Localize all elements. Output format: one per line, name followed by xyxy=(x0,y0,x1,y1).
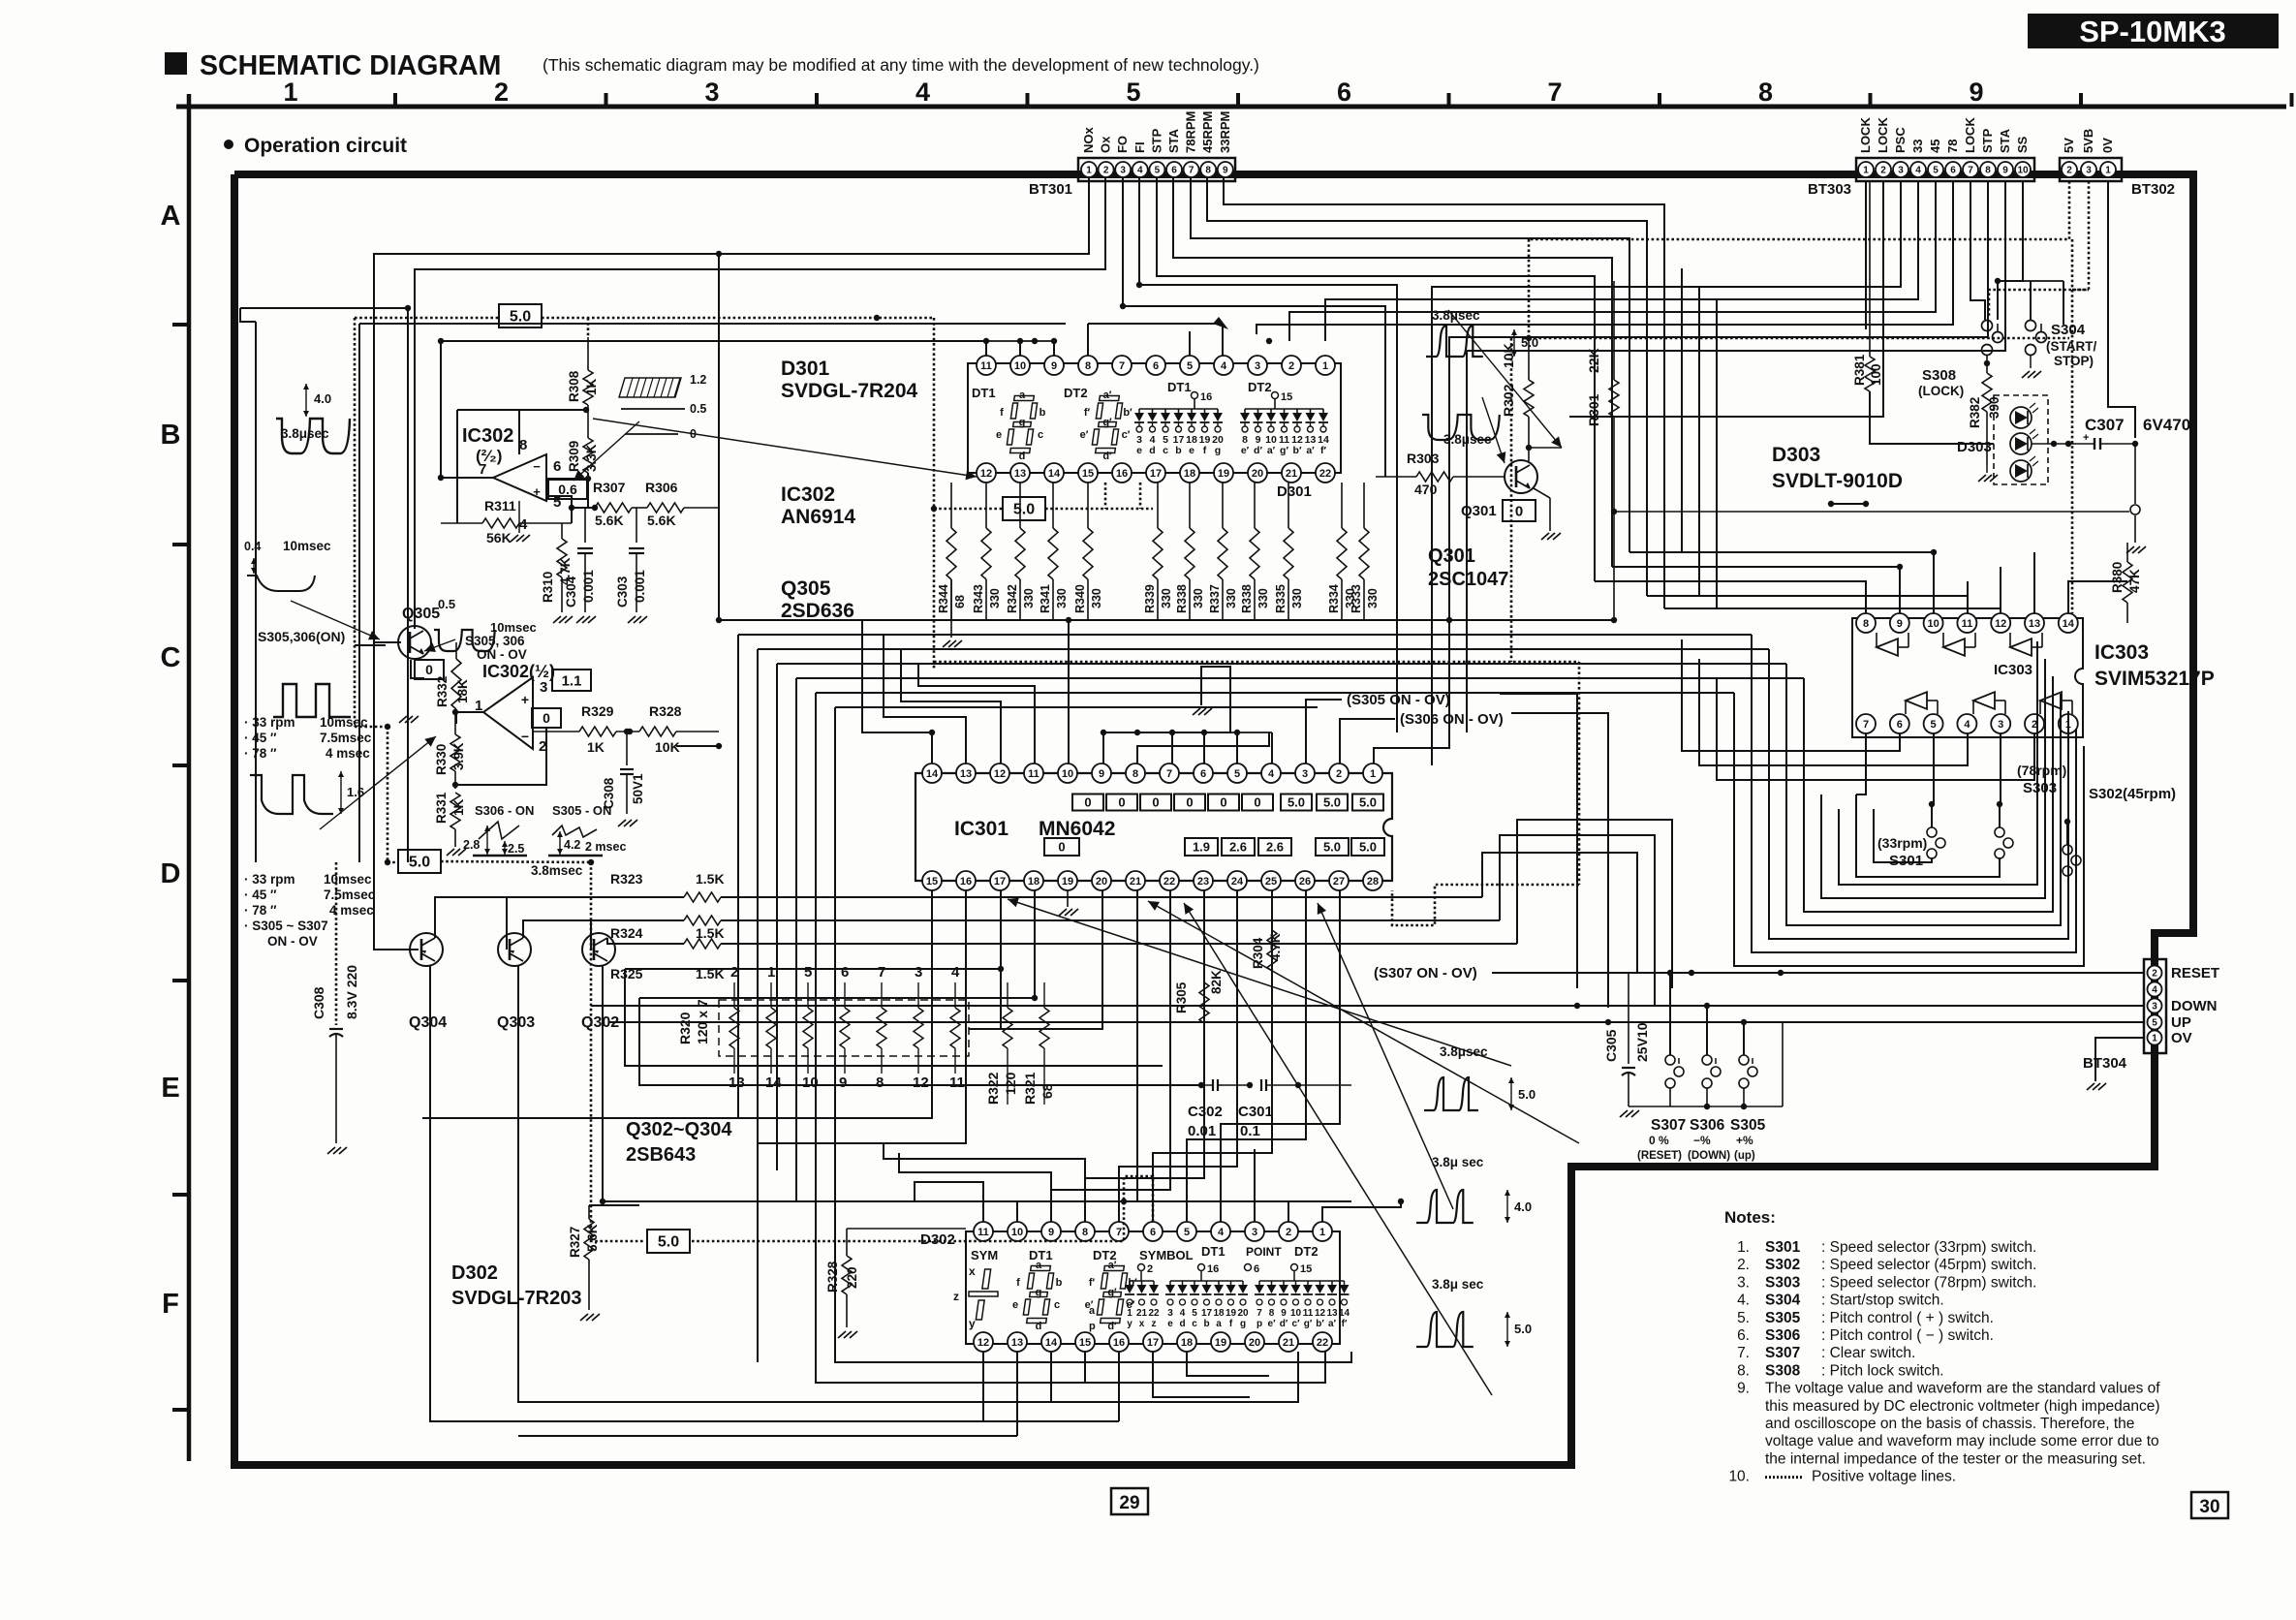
ground under S304 xyxy=(2030,356,2032,368)
svg-text:330: 330 xyxy=(1366,588,1380,608)
svg-text:4: 4 xyxy=(951,964,960,981)
svg-text:IC301: IC301 xyxy=(954,818,1008,840)
junction xyxy=(1611,617,1617,623)
svg-text:1.2: 1.2 xyxy=(690,373,706,387)
svg-text:13: 13 xyxy=(960,768,972,780)
svg-text:SCHEMATIC DIAGRAM: SCHEMATIC DIAGRAM xyxy=(200,50,501,81)
IC301 pin 21 xyxy=(1126,871,1145,890)
svg-text:7: 7 xyxy=(1166,768,1172,780)
wire BT301 pin2 to Q305 collector xyxy=(415,177,1105,629)
D301 pin 9 xyxy=(1044,356,1064,375)
svg-text:7: 7 xyxy=(1189,166,1195,176)
transistor Q303 xyxy=(498,933,531,966)
svg-text:g′: g′ xyxy=(1304,1319,1313,1329)
svg-text:f′: f′ xyxy=(1320,445,1326,456)
switch S305 xyxy=(1739,1055,1749,1065)
transistor Q304 xyxy=(410,933,443,966)
wire S306 switch drop xyxy=(1706,1006,1708,1055)
wire IC301 pin13 up-left staircase xyxy=(884,635,966,763)
svg-text:IC303: IC303 xyxy=(1994,662,2032,678)
D302 pin 20 xyxy=(1245,1332,1264,1352)
svg-text:(33rpm): (33rpm) xyxy=(1877,835,1927,851)
svg-text:SVIM53217P: SVIM53217P xyxy=(2094,668,2215,690)
svg-text:· 78 ″: · 78 ″ xyxy=(244,746,277,761)
ruler tick xyxy=(2079,93,2083,107)
svg-text:2SC1047: 2SC1047 xyxy=(1428,569,1508,590)
transistor Q302 xyxy=(582,933,615,966)
svg-text:45: 45 xyxy=(1928,140,1942,153)
svg-text:SVDGL-7R203: SVDGL-7R203 xyxy=(451,1288,582,1309)
svg-text:R338: R338 xyxy=(1240,584,1254,613)
svg-text:Q301: Q301 xyxy=(1428,545,1475,567)
ground under R327 xyxy=(580,1314,588,1321)
resistor R330 3.9K xyxy=(454,712,456,734)
svg-text:4: 4 xyxy=(1180,1308,1186,1319)
svg-text:DT1: DT1 xyxy=(1201,1244,1226,1259)
wire S304 right to 5V node xyxy=(2063,281,2064,325)
resistor R333 330 xyxy=(1363,483,1365,528)
resistor R332 18K xyxy=(455,642,457,659)
svg-text:0.001: 0.001 xyxy=(581,570,596,603)
wire R380 to IC303 pin14 xyxy=(2068,581,2127,613)
boxed voltage 0 at opamp xyxy=(532,708,561,728)
svg-text:SS: SS xyxy=(2015,136,2030,153)
D301 pin 10 xyxy=(1010,356,1030,375)
svg-text:g: g xyxy=(1036,1287,1042,1298)
wire S307 line to BT304 RESET xyxy=(1492,972,2144,974)
BT303 pin 6 xyxy=(1945,162,1961,177)
D301 pin 12 xyxy=(977,463,996,483)
svg-text:5.: 5. xyxy=(1737,1310,1750,1326)
wire IC301 pin16 down xyxy=(758,890,966,1143)
svg-text:12: 12 xyxy=(980,468,992,480)
svg-text:· 33 rpm: · 33 rpm xyxy=(244,715,295,730)
svg-text:6: 6 xyxy=(1150,1227,1156,1238)
svg-text:11: 11 xyxy=(949,1075,965,1091)
D301 pin 2 xyxy=(1282,356,1301,375)
resistor R337 330 xyxy=(1222,483,1224,528)
svg-text:: Pitch control ( + ) switch.: : Pitch control ( + ) switch. xyxy=(1821,1310,1994,1326)
svg-text:E: E xyxy=(161,1073,179,1104)
switch S308 pushbutton xyxy=(1982,321,1993,331)
svg-text:0.4: 0.4 xyxy=(244,540,261,553)
svg-text:SVDLT-9010D: SVDLT-9010D xyxy=(1772,470,1903,492)
svg-text:b: b xyxy=(1203,1319,1209,1329)
svg-text:2: 2 xyxy=(1880,166,1886,176)
IC303 pin 4 xyxy=(1957,714,1976,733)
svg-text:1K: 1K xyxy=(584,378,599,395)
svg-text:4: 4 xyxy=(1964,719,1970,731)
svg-text:IC302(½): IC302(½) xyxy=(482,662,555,681)
svg-text:3: 3 xyxy=(1898,166,1904,176)
svg-text:R311: R311 xyxy=(484,498,516,514)
svg-text:330: 330 xyxy=(1055,588,1069,608)
ruler tick xyxy=(1447,93,1451,107)
IC301 pin 5 xyxy=(1227,763,1247,783)
svg-text:D301: D301 xyxy=(1277,483,1312,500)
wire BT302 0V down xyxy=(2108,181,2135,438)
resistor R322 120 xyxy=(989,890,991,930)
svg-text:(S305 ON - OV): (S305 ON - OV) xyxy=(1347,692,1450,708)
op-amp IC302 2/2 xyxy=(493,454,546,501)
ruler tick xyxy=(1869,93,1873,107)
svg-text:f: f xyxy=(1016,1277,1020,1289)
svg-text:7: 7 xyxy=(1968,166,1973,176)
resistor R323 1.5K xyxy=(684,892,721,902)
positive voltage line BT302 5V down xyxy=(1529,181,2069,239)
svg-text:4: 4 xyxy=(1221,360,1227,372)
wire Q302 collector to E bus xyxy=(603,1200,1124,1202)
IC301 pin 1 xyxy=(1363,763,1382,783)
svg-text:1: 1 xyxy=(1863,166,1869,176)
wire IC303 pin3 down xyxy=(2000,733,2001,804)
BT303 pin 3 xyxy=(1893,162,1908,177)
wire BT303 pin7 to S308 xyxy=(1970,181,1985,320)
svg-text:6: 6 xyxy=(1337,78,1351,107)
schematic border frame xyxy=(234,174,2193,1465)
left staircase verticals down to bottom xyxy=(737,746,739,1118)
wire Q305 base left xyxy=(355,644,386,646)
svg-text:15: 15 xyxy=(1079,1337,1091,1349)
IC303 pin 9 xyxy=(1890,613,1909,633)
svg-text:R328: R328 xyxy=(649,703,682,719)
svg-text:c: c xyxy=(1054,1299,1060,1311)
resistor R342 330 xyxy=(1019,483,1021,528)
capacitor C301 0.1 xyxy=(1247,1082,1253,1088)
svg-text:0.5: 0.5 xyxy=(438,597,455,611)
svg-text:10msec: 10msec xyxy=(324,872,372,887)
LED block D303 dashed outline xyxy=(1994,395,2048,484)
svg-text:10: 10 xyxy=(1062,768,1073,780)
svg-text:3: 3 xyxy=(2086,166,2092,176)
svg-text:R305: R305 xyxy=(1174,981,1189,1013)
svg-text:9: 9 xyxy=(1223,166,1228,176)
BT304 pin 3 xyxy=(2148,999,2162,1013)
svg-text:5: 5 xyxy=(804,964,812,981)
IC301 pin 9 xyxy=(1092,763,1111,783)
svg-text:S301: S301 xyxy=(1765,1239,1801,1256)
D302 pin 1 xyxy=(1313,1222,1332,1241)
svg-text:R308: R308 xyxy=(567,370,581,402)
svg-text:18: 18 xyxy=(1028,876,1039,888)
svg-text:2.5: 2.5 xyxy=(508,842,524,856)
D302 pin 19 xyxy=(1211,1332,1230,1352)
D301 pin 22 xyxy=(1316,463,1335,483)
diode array DT2 of D302 xyxy=(1259,1280,1345,1282)
junction xyxy=(1266,338,1272,344)
svg-text:5V: 5V xyxy=(2062,138,2076,153)
D301 pin 14 xyxy=(1044,463,1064,483)
positive voltage line left vertical xyxy=(354,318,357,727)
svg-text:0.1: 0.1 xyxy=(1240,1123,1260,1139)
svg-text:R310: R310 xyxy=(541,572,555,603)
svg-text:10: 10 xyxy=(1011,1227,1023,1238)
junction xyxy=(1136,282,1142,288)
svg-text:IC302: IC302 xyxy=(462,425,513,447)
ground under C308 cap xyxy=(327,1147,335,1154)
diode array DT2 of D301 xyxy=(1245,408,1323,410)
svg-text:1.5K: 1.5K xyxy=(696,871,725,887)
diode array SYM of D302 xyxy=(1130,1280,1154,1282)
svg-text:8: 8 xyxy=(519,437,527,453)
svg-text:5.0: 5.0 xyxy=(1518,1087,1536,1102)
wire D303 to C307 node xyxy=(2032,443,2094,445)
D301 pin 7 xyxy=(1112,356,1132,375)
svg-text:20: 20 xyxy=(1237,1308,1249,1319)
D302 pin 2 xyxy=(1279,1222,1298,1241)
BT303 pin 2 xyxy=(1876,162,1891,177)
svg-text:12: 12 xyxy=(977,1337,989,1349)
wire IC301 pin12 up-left staircase xyxy=(901,649,1001,763)
svg-text:29: 29 xyxy=(1119,1493,1139,1513)
svg-text:S304: S304 xyxy=(1765,1293,1801,1309)
svg-text:68: 68 xyxy=(953,595,967,608)
svg-text:ON - OV: ON - OV xyxy=(477,647,527,662)
svg-text:17: 17 xyxy=(1147,1337,1159,1349)
svg-text:R342: R342 xyxy=(1006,584,1019,613)
D302 pin 11 xyxy=(974,1222,993,1241)
wire left bus down to DOWN line xyxy=(639,998,1201,1085)
svg-text:21: 21 xyxy=(1283,1337,1294,1349)
svg-text:STOP): STOP) xyxy=(2054,354,2094,368)
wire D302 pin6 up dotted xyxy=(1124,1176,1153,1222)
wire IC301 pin3 to S305 label xyxy=(1306,700,1342,763)
svg-text:d: d xyxy=(1179,1319,1185,1329)
svg-text:330: 330 xyxy=(1090,588,1103,608)
svg-text:4: 4 xyxy=(1268,768,1275,780)
bus wire rowC 3 xyxy=(758,648,1769,650)
svg-text:R309: R309 xyxy=(567,441,581,472)
svg-text:14: 14 xyxy=(2063,618,2075,630)
IC303 pin 6 xyxy=(1890,714,1909,733)
svg-text:470: 470 xyxy=(1414,482,1438,497)
BT302 pin 2 xyxy=(2062,162,2077,177)
svg-text:STA: STA xyxy=(1998,128,2012,153)
svg-text:AN6914: AN6914 xyxy=(781,506,855,528)
wire R306 right end down xyxy=(718,254,720,620)
wire IC301 pin10 up staircase xyxy=(1068,620,1070,763)
svg-text:4.: 4. xyxy=(1737,1293,1750,1309)
svg-text:7.5msec: 7.5msec xyxy=(320,731,372,745)
svg-text:2: 2 xyxy=(1147,1263,1153,1275)
wire Q303 collector down xyxy=(518,966,1298,1402)
svg-text:16: 16 xyxy=(1116,468,1128,480)
diode array DT1 of D302 xyxy=(1170,1280,1243,1282)
wire IC301 pin20 down-left xyxy=(969,890,1102,1029)
svg-text:19: 19 xyxy=(1226,1308,1237,1319)
svg-text:D302: D302 xyxy=(920,1231,955,1248)
ruler tick xyxy=(815,93,819,107)
svg-text:d: d xyxy=(1036,1321,1042,1332)
svg-text:C308: C308 xyxy=(311,986,326,1019)
svg-text:c: c xyxy=(1038,429,1043,441)
BT304 pin 2 xyxy=(2148,966,2162,981)
svg-text:R303: R303 xyxy=(1407,451,1440,466)
svg-text:g′: g′ xyxy=(1280,445,1288,456)
svg-text:0: 0 xyxy=(1058,840,1065,855)
boxed voltage 0 under MN6042 xyxy=(1044,838,1079,856)
ruler tick xyxy=(2290,93,2294,107)
boxed voltage 0 IC301 top xyxy=(1072,794,1103,811)
wire R311 node to R310 xyxy=(571,508,573,523)
svg-text:0: 0 xyxy=(1084,795,1091,810)
svg-text:S307: S307 xyxy=(1651,1117,1686,1134)
wire BT301 pin1 base tap to Q305 xyxy=(374,641,401,643)
svg-text:4 msec: 4 msec xyxy=(329,903,374,918)
wire C308 50V1 to bus xyxy=(629,803,631,805)
D302 pin 10 xyxy=(1008,1222,1027,1241)
junction xyxy=(929,730,935,735)
BT301 pin 9 xyxy=(1218,162,1233,177)
svg-text:12: 12 xyxy=(1315,1308,1326,1319)
svg-text:6: 6 xyxy=(841,964,849,981)
wires IC301 pins 7 6 5 4 up to bus xyxy=(1171,732,1173,763)
display block D301 outline xyxy=(968,363,1341,473)
BT303 pin 10 xyxy=(2015,162,2031,177)
svg-text:47K: 47K xyxy=(2127,569,2142,593)
svg-text:0: 0 xyxy=(1515,503,1523,519)
svg-text:24: 24 xyxy=(1231,876,1244,888)
junction xyxy=(627,729,633,734)
resistor of R320 bank xyxy=(807,982,809,1008)
ground under Q305 xyxy=(407,656,409,712)
svg-text:1.1: 1.1 xyxy=(562,672,582,689)
wire IC301 pin9 up to gnd stub xyxy=(1103,678,1230,763)
IC301 pin 20 xyxy=(1092,871,1111,890)
diag arrow waveform to opamp B minus xyxy=(320,736,436,829)
svg-text:3: 3 xyxy=(1252,1227,1257,1238)
wire IC301 pin22 down xyxy=(1051,890,1170,1222)
svg-text:5: 5 xyxy=(1933,166,1939,176)
ground under opamp pin4 xyxy=(518,501,520,533)
svg-text:14: 14 xyxy=(1339,1308,1350,1319)
bus loop 3 right side xyxy=(1769,649,2068,939)
svg-text:3.8μsec: 3.8μsec xyxy=(281,426,329,441)
svg-text:0 %: 0 % xyxy=(1649,1134,1669,1147)
wire S304 top node xyxy=(2030,281,2032,320)
svg-text:12: 12 xyxy=(994,768,1006,780)
svg-text:16: 16 xyxy=(1207,1263,1219,1275)
verticals above IC303 from top band xyxy=(1681,268,1683,552)
svg-text:0: 0 xyxy=(1220,795,1226,810)
IC301 pin 23 xyxy=(1194,871,1213,890)
wire Q305 emitter down xyxy=(411,660,424,678)
svg-text:b′: b′ xyxy=(1316,1319,1324,1329)
svg-text:1K: 1K xyxy=(451,798,466,816)
wire R309 bottom to opamp pin6 xyxy=(546,473,588,479)
capacitor C303 0.001 xyxy=(636,508,637,543)
svg-text:R334: R334 xyxy=(1327,584,1341,613)
svg-text:3: 3 xyxy=(1167,1308,1173,1319)
svg-text:a′: a′ xyxy=(1103,389,1112,401)
pointer arrow IC301 pin26 to waveform xyxy=(1318,903,1453,1209)
svg-text:R343: R343 xyxy=(972,584,985,613)
svg-text:C305: C305 xyxy=(1603,1029,1619,1062)
svg-text:4: 4 xyxy=(519,516,528,533)
svg-text:7: 7 xyxy=(1119,360,1125,372)
svg-text:100: 100 xyxy=(1869,363,1883,386)
IC303 pin 7 xyxy=(1856,714,1876,733)
svg-text:0: 0 xyxy=(1254,795,1260,810)
svg-text:330: 330 xyxy=(1192,588,1205,608)
positive voltage line vertical to IC303 pin14 xyxy=(2071,239,2074,613)
svg-text:22: 22 xyxy=(1164,876,1175,888)
svg-text:S305 - ON: S305 - ON xyxy=(552,803,611,818)
wire R325 right xyxy=(721,943,1517,945)
svg-text:F: F xyxy=(162,1289,179,1320)
svg-text:30: 30 xyxy=(2199,1497,2219,1517)
diode array DT1 of D301 xyxy=(1139,408,1218,410)
svg-text:14: 14 xyxy=(1045,1337,1058,1349)
wire D302 pin8 up xyxy=(884,1143,1085,1222)
svg-text:330: 330 xyxy=(1257,588,1270,608)
svg-text:8: 8 xyxy=(1985,166,1991,176)
IC301 pin 18 xyxy=(1024,871,1043,890)
ruler tick xyxy=(172,323,189,327)
svg-text:17: 17 xyxy=(994,876,1006,888)
wire S306 annotation to switch xyxy=(1511,713,1608,1008)
svg-text:b: b xyxy=(1056,1277,1063,1289)
svg-text:The voltage value and waveform: The voltage value and waveform are the s… xyxy=(1765,1381,2160,1397)
svg-text:0: 0 xyxy=(1186,795,1193,810)
svg-text:15: 15 xyxy=(1300,1263,1312,1275)
ground at Q301 emitter xyxy=(1534,488,1550,498)
wire D301 pin to resistor xyxy=(1087,483,1089,528)
bus loop inner small xyxy=(1856,794,2000,877)
svg-text:: Speed selector (45rpm) switc: : Speed selector (45rpm) switch. xyxy=(1821,1257,2036,1273)
svg-text:x: x xyxy=(969,1264,976,1278)
svg-text:R329: R329 xyxy=(581,703,614,719)
svg-text:6: 6 xyxy=(1897,719,1903,731)
svg-text:S308: S308 xyxy=(1765,1362,1801,1379)
svg-text:220: 220 xyxy=(845,1266,859,1289)
boxed voltage 5.0 IC301 top xyxy=(1281,794,1312,811)
svg-text:FO: FO xyxy=(1115,136,1130,153)
svg-text:0.5: 0.5 xyxy=(690,402,706,416)
svg-text:R335: R335 xyxy=(1274,584,1288,613)
wire S305 switch drop xyxy=(1743,1022,1745,1055)
svg-text:a: a xyxy=(1216,1319,1222,1329)
svg-text:R382: R382 xyxy=(1968,397,1982,428)
svg-text:5: 5 xyxy=(1187,360,1193,372)
svg-text:7: 7 xyxy=(878,964,885,981)
svg-text:8: 8 xyxy=(1085,360,1091,372)
svg-text:5.0: 5.0 xyxy=(409,855,430,871)
svg-text:17: 17 xyxy=(1201,1308,1213,1319)
svg-text:2SD636: 2SD636 xyxy=(781,600,854,622)
svg-text:1.5K: 1.5K xyxy=(696,925,725,941)
switch bottom rail xyxy=(1669,1088,1671,1106)
boxed voltage 0.6 xyxy=(548,480,587,499)
svg-text:330: 330 xyxy=(1290,588,1304,608)
wires IC303 top pins up xyxy=(1831,581,1866,613)
wire IC301 pin17 junction down xyxy=(1000,969,1002,1029)
svg-text:18: 18 xyxy=(1181,1337,1193,1349)
wire C301 right xyxy=(1298,1084,1351,1086)
svg-text:R331: R331 xyxy=(434,792,449,824)
boxed voltage 5.0 IC301 top xyxy=(1317,794,1348,811)
D302 pin 7 xyxy=(1109,1222,1129,1241)
svg-text:d: d xyxy=(1149,445,1155,456)
wire IC301 pin27 down xyxy=(1221,890,1340,1222)
svg-text:A: A xyxy=(161,201,181,232)
BT303 pin 5 xyxy=(1928,162,1943,177)
D301 pin 8 xyxy=(1078,356,1098,375)
svg-text:−: − xyxy=(533,459,541,474)
verticals right of R32x xyxy=(1482,853,1637,973)
wire R327 top xyxy=(589,1204,639,1206)
wire Q302 emitter up xyxy=(607,938,684,944)
